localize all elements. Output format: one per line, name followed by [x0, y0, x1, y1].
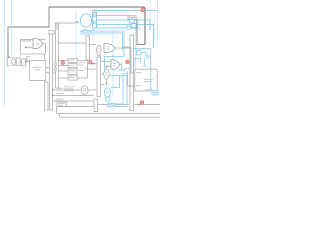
source bracket block [7, 57, 10, 66]
blue route above box3 [134, 59, 141, 67]
wire bar B to bar C [53, 72, 56, 74]
wire ellipse3 to bar U1 [88, 89, 96, 91]
blue circle below ellipse4 [105, 97, 110, 102]
node on bracket [8, 56, 10, 58]
text box2 row3 [78, 69, 85, 72]
block: constant text box [30, 61, 46, 81]
wire bar R1 to box3 input1 [134, 72, 135, 74]
arrowhead into L1 [92, 106, 94, 108]
bus bar B label box [49, 31, 54, 34]
ellipse3 text [83, 88, 87, 91]
bar C input tick 1 [54, 63, 56, 65]
wire stub up from node [27, 57, 30, 62]
oval 2 down arrow [106, 79, 108, 84]
op-amp U2 symbol mark [113, 63, 116, 65]
wire bar U1 right at 84 [101, 84, 105, 86]
blue step wire right [141, 53, 151, 56]
wire op-amp input 2 [26, 47, 32, 49]
arrowhead row3 into L1 [92, 100, 94, 102]
wire source to mux [91, 20, 94, 22]
badge R3 commented icon [126, 60, 130, 64]
guide line mid [75, 12, 77, 58]
node on R1 out [138, 104, 140, 106]
label box 1 text [69, 59, 75, 62]
arrowhead into R1 [127, 104, 129, 106]
bar C input tick 2 [54, 68, 56, 70]
wire bar C to label box 4 [59, 77, 69, 79]
blue label box on bottom wire [108, 103, 116, 107]
blue bus top line [97, 10, 158, 12]
wire bottom mid into L1 [57, 106, 93, 108]
pill stem wire [98, 56, 100, 57]
tiny text box row2 [58, 104, 63, 107]
wire U2 output [120, 63, 123, 65]
text box2 row1 [78, 61, 85, 64]
tiny text box above bottom wire [57, 102, 67, 107]
demux tick 2 [93, 21, 95, 23]
bus bar R1 [130, 35, 134, 111]
label box 4 [68, 76, 78, 80]
blue bus out 2 [97, 20, 151, 30]
label box 1 [68, 58, 78, 62]
wire down to box3 input1 [131, 47, 132, 73]
node U2 input 2 [106, 66, 108, 68]
blue label box text [109, 105, 115, 106]
source ellipse top [80, 14, 91, 28]
wire R1 out right [134, 104, 161, 106]
label box 2 [68, 64, 78, 68]
badge R2 commented icon [89, 60, 92, 64]
arrowhead into pill [95, 44, 97, 46]
arrowhead into bar B lower [48, 72, 50, 74]
label box 2 text [69, 64, 75, 67]
block: data memory box3 [135, 69, 157, 91]
bus bar A [45, 82, 49, 110]
box3 center text row1 [144, 78, 153, 81]
op-amp U1 feedback loop wire [21, 40, 46, 55]
blue arrowhead down [150, 88, 152, 90]
mux label [92, 10, 97, 12]
label box 3 [68, 69, 78, 74]
blue bus out 4 [97, 27, 141, 29]
vertical stub to bottom rail [56, 107, 58, 114]
arrowhead box3 input2 [131, 85, 133, 87]
op-amp U1 symbol mark [36, 43, 39, 45]
arrowhead into bar M [84, 42, 86, 44]
label box top right text [129, 16, 136, 19]
op-amp U1 [33, 38, 43, 48]
subsystem boundary right U [137, 19, 145, 45]
op-amp U2 [111, 60, 120, 70]
wire between squares [20, 61, 21, 63]
box3 port label 2 [136, 84, 141, 87]
oval block left [12, 58, 16, 66]
wire box1 to bar B upper [46, 67, 48, 69]
blue wire under gate2 [118, 69, 126, 71]
multiplier ellipse3 [81, 86, 88, 95]
wire row2 bottom left [53, 95, 94, 97]
wire bar U1 to oval 2 [101, 73, 104, 75]
blue annotation arc 1 [81, 29, 94, 33]
demux tick 1 [93, 14, 95, 16]
blue wire right cluster top [133, 48, 151, 50]
guide line right D [157, 0, 159, 42]
wire bar M to pill [90, 44, 96, 46]
wire row1 bottom left [53, 89, 80, 91]
small square block 2 [22, 59, 26, 66]
wire op-amp input 1 [21, 40, 32, 42]
arrowhead right column [129, 46, 131, 48]
comparator gate G3 [104, 44, 115, 53]
label box top right [128, 16, 136, 19]
wire U2 input 2 [107, 66, 112, 68]
guide line mid-right [112, 30, 114, 95]
blue box4 bottom right [152, 91, 158, 95]
subsystem boundary top edge [49, 7, 145, 45]
label above row1 [56, 87, 63, 90]
blue vert right long [150, 49, 152, 90]
wire U2 input 1 [101, 61, 110, 63]
blue stub above box3 [144, 60, 146, 67]
text in constant box row2 [35, 68, 41, 71]
node after square2 [26, 61, 28, 63]
wire down to box3 input2 [128, 72, 135, 87]
wire gate G3 output [115, 47, 131, 49]
blue bus out 3 [97, 25, 154, 49]
blue vert drop 1 [111, 76, 120, 88]
bus bar U1 [97, 57, 101, 97]
node row1 [52, 89, 54, 91]
box3 center text row2 [144, 80, 151, 83]
wire row3 bottom left [53, 100, 94, 102]
blue vert drop 2 [111, 76, 124, 105]
wire box1 to bar B lower [46, 72, 48, 74]
wire bar C to label box 2 [59, 65, 69, 67]
label box 4 text [69, 76, 75, 79]
arrowhead row1 into U1 [95, 89, 97, 91]
badge R1 commented icon [61, 61, 65, 65]
wire bar C to label box 3 [59, 70, 69, 72]
arrowhead into ellipse3 [79, 89, 81, 91]
wire top to bar C [57, 23, 75, 30]
wire square2 to box [26, 61, 30, 63]
badge R5 commented icon [140, 101, 144, 105]
blue ellipse4 text [106, 90, 109, 93]
wire box2 to bar U1 [88, 63, 96, 65]
blue text small right [145, 58, 150, 59]
blue text above mid row [122, 73, 129, 74]
wire L1 to R1 [98, 104, 128, 106]
tiny text box rows [58, 102, 65, 105]
node on wire box2 [93, 63, 95, 65]
bus bar L1 [94, 99, 98, 112]
ellipse3 text2 [83, 89, 87, 92]
guide line left A [4, 0, 6, 107]
blue annotation line [80, 34, 95, 36]
annotation text block bottom [64, 87, 75, 92]
subsystem boundary top-left [8, 7, 49, 57]
wire op-amp output [43, 43, 46, 45]
wire from loop down to bar column [44, 54, 46, 60]
block: state text box 2 [77, 61, 88, 79]
gray oval block 2 [104, 69, 109, 80]
blue bus mid row [109, 75, 127, 77]
blue vert drop 3 [126, 76, 128, 107]
label above row2 [56, 92, 64, 95]
gate G3 symbol mark [107, 47, 110, 49]
blue text under badge R3 [124, 68, 131, 69]
node row2 [52, 95, 54, 97]
blue wire gate area corner [105, 57, 125, 73]
arrowhead U2 input 1 [109, 61, 111, 63]
text box2 row2 [78, 64, 84, 67]
bottom rail stub [59, 114, 61, 118]
blue vert gate output [121, 63, 123, 71]
guide line left B [11, 0, 13, 58]
blue box small top right [127, 26, 130, 29]
badge R4 commented icon [141, 8, 145, 12]
blue box4 text [153, 92, 157, 93]
blue bus out 1 [97, 15, 130, 17]
box3 port label 1 [136, 71, 141, 74]
demux block top [93, 13, 97, 29]
text in constant box row1 [33, 66, 42, 69]
bottom rail 1 [57, 113, 161, 115]
guide line right A [135, 28, 137, 70]
blue ellipse4 text2 [106, 92, 109, 95]
wire second into bar U1 [85, 68, 96, 70]
wire into bar M [59, 42, 85, 44]
blue block top right 2 [132, 24, 137, 28]
gray pill block with equals [97, 45, 101, 56]
arrowhead into bar U1 second [95, 68, 97, 70]
blue small box right [137, 50, 142, 55]
arrowhead box3 input1 [131, 72, 133, 74]
label above row3 [56, 98, 63, 101]
tiny label near wire top [75, 21, 79, 23]
arrowhead into op-amp [31, 47, 33, 49]
oval 2 marks [105, 73, 107, 75]
wire right column down [122, 46, 131, 48]
blue block top right 1 [130, 19, 135, 23]
bottom rail 2 [60, 116, 161, 118]
bus bar C [56, 23, 59, 88]
wire bar C to label box 1 [59, 59, 69, 61]
blue ellipse4 scope [104, 88, 111, 97]
blue wire into box4 [146, 89, 152, 91]
small square block 1 [16, 58, 20, 65]
arrowhead into bar U1 top wire [95, 63, 97, 65]
bus bar M [86, 36, 90, 60]
pill equals marks [98, 49, 100, 51]
blue bottom wire [108, 106, 128, 108]
bus bar B [50, 34, 53, 110]
guide line right B [149, 0, 151, 30]
arrowhead into bar B upper [48, 67, 50, 69]
blue bus row 6 [82, 33, 123, 50]
blue micro text above box3 [143, 65, 147, 66]
node input 2 junction [25, 47, 27, 49]
blue bus row 5 [80, 31, 124, 57]
guide line right C [153, 18, 155, 48]
label box 3 text [69, 69, 76, 72]
